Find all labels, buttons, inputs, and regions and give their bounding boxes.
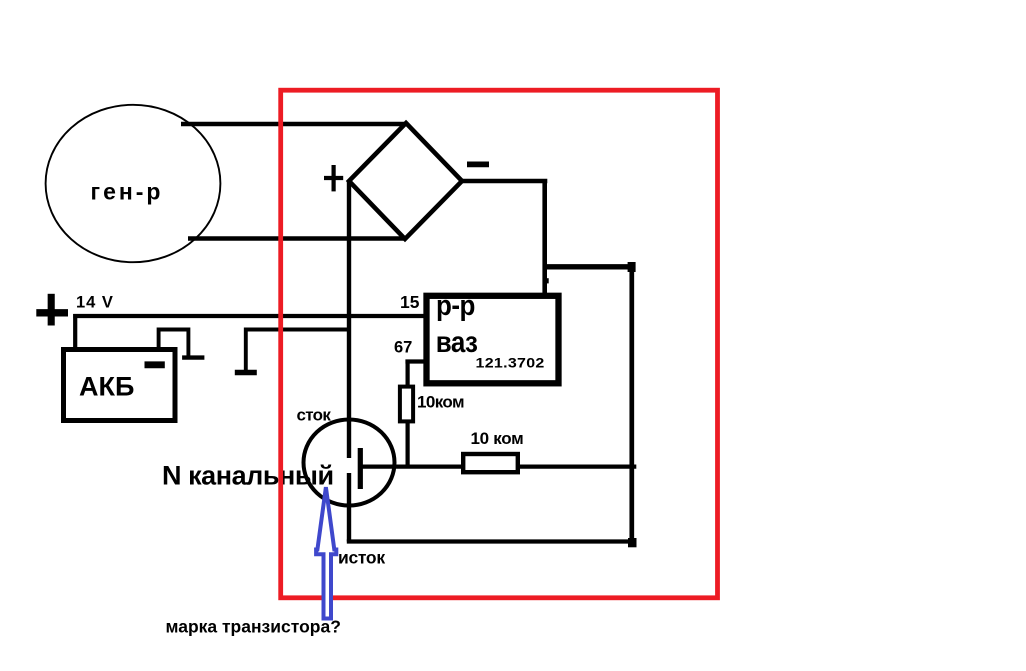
small nub on minus drop wire [545, 278, 549, 283]
ground bar (stub) [235, 370, 257, 376]
wire: generator top to bridge top vertex [181, 122, 407, 127]
plus label at bridge + output [324, 165, 343, 191]
svg-text:14 V: 14 V [76, 294, 114, 312]
junction blob at branch corner [628, 262, 636, 272]
generator G1 (ген-р) circle [46, 105, 221, 262]
wire: 14V rail from battery + to regulator pin 15 [73, 314, 427, 318]
svg-text:15: 15 [400, 292, 420, 312]
wire: minus corner down to regulator box top [542, 179, 547, 293]
svg-text:67: 67 [394, 339, 412, 357]
resistor R1 10kom vertical [400, 387, 413, 422]
ground bar (battery) [182, 355, 204, 359]
regulator U1 р-р ваз 121.3702 box [427, 296, 559, 384]
source line down from transistor [347, 473, 351, 542]
svg-text:121.3702: 121.3702 [476, 357, 545, 372]
battery plus symbol [36, 294, 68, 326]
wire: battery minus up-over-down to ground [159, 330, 189, 357]
svg-text:р-р: р-р [436, 289, 475, 321]
wire: pin 67 stub from regulator [405, 362, 427, 387]
gate bar inside transistor [358, 448, 363, 489]
battery АКБ box [64, 350, 176, 421]
wire: ground stub to drain rail [246, 330, 349, 371]
wire: gate lead from transistor to right rail [361, 464, 636, 468]
svg-text:10ком: 10ком [417, 393, 464, 412]
svg-text:АКБ: АКБ [79, 372, 134, 402]
wire: branch from minus drop to right rail [545, 264, 632, 269]
minus label at bridge - output [467, 161, 489, 167]
svg-text:сток: сток [297, 406, 332, 425]
wire: bottom source wire to right rail [347, 539, 632, 543]
gate lead inside transistor [362, 464, 394, 468]
bridge rectifier diamond [349, 123, 462, 239]
wire: right vertical rail [629, 265, 634, 544]
resistor R2 10 kom horizontal [463, 454, 518, 472]
drain line inside transistor [347, 420, 351, 458]
wire: bridge - vertex to corner [462, 179, 547, 183]
battery minus bar [145, 361, 165, 368]
svg-text:N канальный: N канальный [162, 461, 334, 491]
red highlight box [281, 90, 718, 598]
svg-text:10 ком: 10 ком [471, 429, 524, 448]
transistor Q1 circle [304, 420, 395, 506]
svg-text:ген-р: ген-р [91, 179, 164, 205]
wire: resistor R1 bottom lead down to gate lead [406, 423, 410, 468]
svg-text:ваз: ваз [436, 326, 478, 359]
wire: generator bottom to bridge bottom vertex [188, 236, 406, 241]
junction blob at bottom right corner [628, 538, 637, 547]
blue arrow (марка транзистора pointer) [316, 487, 336, 618]
wire: bridge + vertex down (drain rail) [347, 181, 351, 458]
svg-text:марка транзистора?: марка транзистора? [166, 617, 341, 637]
svg-text:исток: исток [338, 548, 385, 568]
wire: drop from 14V rail to battery [73, 314, 77, 349]
